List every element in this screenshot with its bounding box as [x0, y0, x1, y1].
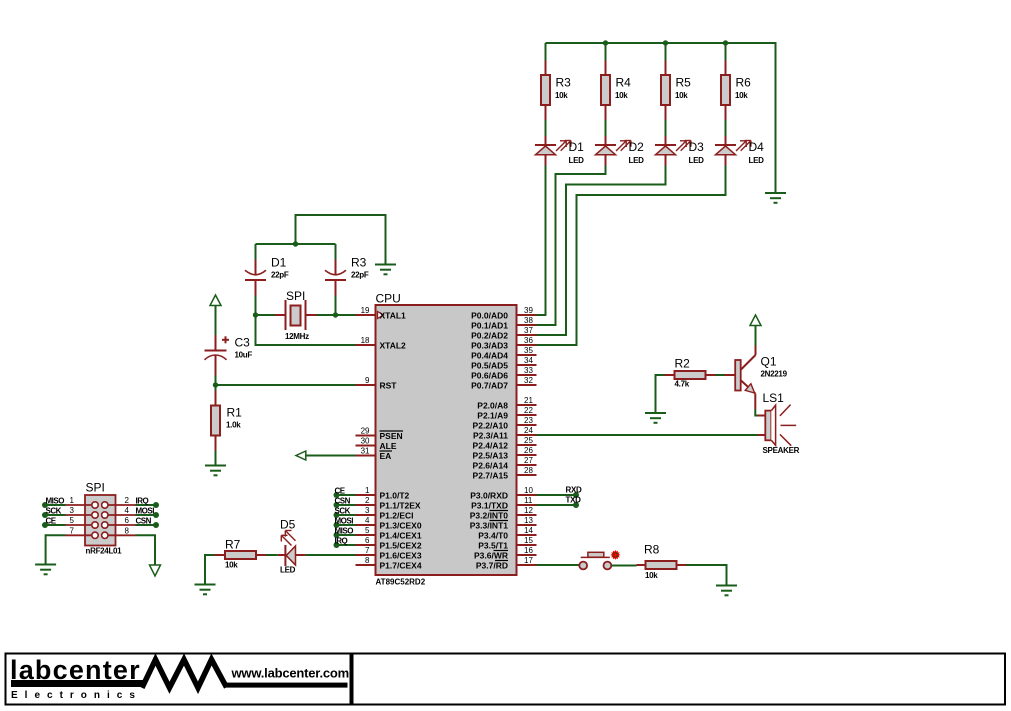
- pin 5 SPI left: [66, 516, 99, 528]
- svg-text:P2.0/A8: P2.0/A8: [477, 401, 508, 411]
- svg-text:RXD: RXD: [566, 486, 583, 495]
- wire top supply rail: [546, 43, 776, 193]
- svg-text:30: 30: [361, 437, 370, 446]
- svg-text:25: 25: [524, 436, 533, 445]
- resistor R7 10k: [215, 538, 267, 570]
- wire D2 to P0.1 pin38: [537, 166, 606, 326]
- svg-text:P0.1/AD1: P0.1/AD1: [471, 321, 508, 331]
- resistor R1 1.0k: [211, 391, 242, 451]
- svg-text:CSN: CSN: [136, 517, 152, 526]
- wire net IRQ to pin 6: [334, 537, 356, 549]
- pin 36 P0.3/AD3 stub: [471, 336, 536, 351]
- capacitor D1 22pF: [245, 244, 289, 315]
- svg-text:R5: R5: [676, 76, 692, 90]
- svg-text:21: 21: [524, 396, 533, 405]
- svg-text:3: 3: [365, 506, 370, 515]
- border title box: [353, 654, 1006, 705]
- svg-text:10k: 10k: [615, 91, 628, 100]
- svg-text:P0.2/AD2: P0.2/AD2: [471, 331, 508, 341]
- svg-text:19: 19: [361, 306, 370, 315]
- svg-text:13: 13: [524, 516, 533, 525]
- svg-text:P1.2/ECI: P1.2/ECI: [380, 511, 414, 521]
- svg-text:8: 8: [125, 526, 130, 535]
- pin 34 P0.5/AD5 stub: [471, 356, 536, 371]
- svg-text:ALE: ALE: [380, 441, 397, 451]
- svg-text:10k: 10k: [675, 91, 688, 100]
- capacitor R3 22pF: [325, 244, 369, 315]
- resistor R8 10k: [637, 543, 687, 581]
- svg-text:27: 27: [524, 456, 533, 465]
- pin 32 P0.7/AD7 stub: [471, 376, 536, 391]
- svg-text:P0.7/AD7: P0.7/AD7: [471, 381, 508, 391]
- svg-text:P0.5/AD5: P0.5/AD5: [471, 361, 508, 371]
- svg-text:12MHz: 12MHz: [285, 332, 309, 341]
- pin 19 XTAL1 stub: [356, 306, 407, 321]
- wire net CSN SPI: [136, 517, 160, 529]
- wire EA with arrow: [296, 451, 356, 460]
- wire R6 to D4: [725, 120, 727, 136]
- wire D1 to P0.0 pin39: [537, 166, 546, 316]
- pin 6 SPI right: [102, 516, 136, 528]
- svg-text:P3.4/T0: P3.4/T0: [478, 531, 508, 541]
- svg-text:10k: 10k: [735, 91, 748, 100]
- pin marker XTAL1 clock: [378, 312, 384, 319]
- svg-text:SCK: SCK: [46, 507, 62, 516]
- ground R1: [205, 466, 226, 476]
- svg-text:SPI: SPI: [286, 289, 305, 303]
- svg-text:LED: LED: [280, 566, 296, 575]
- svg-text:MISO: MISO: [335, 527, 354, 536]
- svg-text:10: 10: [524, 486, 533, 495]
- pin 12 P3.2/INT0 stub: [470, 506, 537, 521]
- wire net CE to pin 1: [334, 487, 356, 499]
- svg-text:P0.4/AD4: P0.4/AD4: [471, 351, 508, 361]
- pin 7 SPI left: [66, 526, 99, 538]
- ground top-right rail: [765, 193, 786, 203]
- svg-text:SPEAKER: SPEAKER: [763, 446, 800, 455]
- svg-text:16: 16: [524, 546, 533, 555]
- pin 1 P1.0/T2 stub: [356, 486, 410, 501]
- svg-text:10k: 10k: [645, 571, 658, 580]
- wire ground to R7: [205, 555, 215, 585]
- pin 8 SPI right: [102, 526, 136, 538]
- pin 13 P3.3/INT1 stub: [470, 516, 537, 531]
- LED D4: [715, 136, 764, 166]
- pin 16 P3.6/WR stub: [474, 546, 537, 561]
- svg-text:8: 8: [365, 556, 370, 565]
- wire pin17 to button: [537, 564, 580, 566]
- svg-text:P1.6/CEX3: P1.6/CEX3: [380, 551, 422, 561]
- connector SPI nRF24L01 body: [85, 495, 116, 546]
- svg-text:31: 31: [361, 447, 370, 456]
- node XTAL1 left junction: [253, 312, 258, 317]
- svg-text:14: 14: [524, 526, 533, 535]
- wire power to C3: [215, 306, 217, 336]
- svg-text:26: 26: [524, 446, 533, 455]
- pin 18 XTAL2 stub: [356, 336, 407, 351]
- svg-text:IRQ: IRQ: [136, 497, 149, 506]
- svg-text:2: 2: [365, 496, 370, 505]
- svg-text:P3.2/INT0: P3.2/INT0: [470, 511, 509, 521]
- svg-text:D3: D3: [689, 140, 705, 154]
- wire C3 to RST node: [215, 376, 217, 391]
- svg-text:37: 37: [524, 326, 533, 335]
- wire crystal left lead: [256, 314, 276, 316]
- svg-text:P1.4/CEX1: P1.4/CEX1: [380, 531, 422, 541]
- svg-text:9: 9: [365, 376, 370, 385]
- svg-text:10k: 10k: [225, 561, 238, 570]
- wire D5 to pin7: [306, 554, 356, 556]
- pin 3 P1.2/ECI stub: [356, 506, 414, 521]
- pin 8 P1.7/CEX4 stub: [356, 556, 422, 571]
- svg-text:10k: 10k: [555, 91, 568, 100]
- svg-text:38: 38: [524, 316, 533, 325]
- svg-text:6: 6: [365, 536, 370, 545]
- capacitor C3 10uF: [205, 335, 253, 376]
- wire R7 to D5: [266, 554, 278, 556]
- ground SPI: [35, 565, 56, 575]
- wire RST to CPU pin9: [216, 384, 356, 386]
- svg-text:R2: R2: [675, 357, 691, 371]
- wire rail to R5: [665, 43, 667, 61]
- pin 37 P0.2/AD2 stub: [471, 326, 536, 341]
- pin 14 P3.4/T0 stub: [478, 526, 536, 541]
- svg-text:R4: R4: [616, 76, 632, 90]
- wire power to collector: [755, 326, 757, 346]
- svg-text:P3.3/INT1: P3.3/INT1: [470, 521, 509, 531]
- wire R5 to D3: [665, 120, 667, 136]
- svg-text:SCK: SCK: [335, 507, 351, 516]
- wire crystal to XTAL1: [317, 314, 356, 316]
- pin 10 P3.0/RXD stub: [470, 486, 536, 501]
- svg-text:CSN: CSN: [335, 497, 351, 506]
- wire rail to R6: [725, 43, 727, 61]
- resistor R6 10k: [721, 61, 751, 121]
- wire cap top link: [256, 243, 336, 245]
- svg-text:IRQ: IRQ: [335, 537, 348, 546]
- svg-text:36: 36: [524, 336, 533, 345]
- pin 21 P2.0/A8 stub: [477, 396, 536, 411]
- svg-text:11: 11: [524, 496, 533, 505]
- svg-text:P1.7/CEX4: P1.7/CEX4: [380, 561, 422, 571]
- svg-text:P1.0/T2: P1.0/T2: [380, 491, 410, 501]
- wire net MISO to pin 5: [334, 527, 356, 539]
- svg-text:22: 22: [524, 406, 533, 415]
- pin 38 P0.1/AD1 stub: [471, 316, 536, 331]
- wire net SCK SPI: [42, 507, 66, 519]
- svg-text:R3: R3: [556, 76, 572, 90]
- svg-text:4.7k: 4.7k: [675, 380, 690, 389]
- svg-text:P2.7/A15: P2.7/A15: [473, 471, 509, 481]
- wire D3 to P0.2 pin37: [537, 166, 666, 336]
- pin 2 P1.1/T2EX stub: [356, 496, 421, 511]
- wire R4 to D2: [605, 120, 607, 136]
- wire crystal top loop: [296, 215, 386, 265]
- wire net MOSI SPI: [136, 507, 160, 519]
- node rail-R6: [723, 40, 728, 45]
- svg-text:10uF: 10uF: [235, 351, 253, 360]
- svg-text:22pF: 22pF: [351, 271, 369, 280]
- wire emitter to speaker: [755, 409, 757, 416]
- terminal arrow SPI pin8: [150, 565, 161, 576]
- pin 22 P2.1/A9 stub: [477, 406, 536, 421]
- pin 39 P0.0/AD0 stub: [471, 306, 536, 321]
- node XTAL1 right junction: [333, 312, 338, 317]
- pin 6 P1.5/CEX2 stub: [356, 536, 422, 551]
- crystal SPI 12MHz: [275, 289, 317, 341]
- svg-text:D1: D1: [271, 256, 287, 270]
- resistor R5 10k: [661, 61, 691, 121]
- transistor Q1 2N2219: [725, 346, 788, 410]
- svg-text:12: 12: [524, 506, 533, 515]
- pin 27 P2.6/A14 stub: [473, 456, 537, 471]
- power +V C3: [210, 295, 221, 306]
- svg-text:7: 7: [365, 546, 370, 555]
- wire net IRQ SPI: [136, 497, 160, 509]
- border logo box: [6, 654, 351, 705]
- svg-text:P2.6/A14: P2.6/A14: [473, 461, 509, 471]
- svg-text:P3.5/T1: P3.5/T1: [478, 541, 508, 551]
- node rail-R4: [603, 40, 608, 45]
- svg-text:LED: LED: [689, 156, 705, 165]
- wire rail to R3: [545, 43, 547, 61]
- svg-text:P2.3/A11: P2.3/A11: [473, 431, 508, 441]
- svg-text:1: 1: [365, 486, 370, 495]
- svg-text:R6: R6: [736, 76, 752, 90]
- svg-text:P3.0/RXD: P3.0/RXD: [470, 491, 508, 501]
- ground R8: [716, 586, 737, 596]
- svg-text:P3.7/RD: P3.7/RD: [476, 561, 508, 571]
- wire R1 to ground: [215, 451, 217, 466]
- op-amp n/a : CPU U1 AT89C52RD2 body: [376, 305, 517, 575]
- svg-text:P2.4/A12: P2.4/A12: [473, 441, 509, 451]
- pin 15 P3.5/T1 stub: [478, 536, 536, 551]
- logo underline bar: [11, 680, 144, 687]
- svg-text:C3: C3: [235, 336, 251, 350]
- svg-text:R1: R1: [227, 406, 243, 420]
- svg-text:3: 3: [70, 506, 75, 515]
- svg-text:Q1: Q1: [761, 355, 777, 369]
- pin 28 P2.7/A15 stub: [473, 466, 537, 481]
- svg-text:D4: D4: [749, 140, 765, 154]
- svg-text:P1.3/CEX0: P1.3/CEX0: [380, 521, 422, 531]
- pin 3 SPI left: [66, 506, 99, 518]
- wire SPI pin8 to terminal: [136, 535, 156, 565]
- svg-text:P2.5/A13: P2.5/A13: [473, 451, 509, 461]
- pin 25 P2.4/A12 stub: [473, 436, 537, 451]
- LED D3: [655, 136, 704, 166]
- svg-text:33: 33: [524, 366, 533, 375]
- resistor R2 4.7k: [665, 357, 716, 389]
- svg-text:XTAL1: XTAL1: [380, 311, 407, 321]
- svg-text:LED: LED: [749, 156, 765, 165]
- svg-text:R8: R8: [644, 543, 660, 557]
- svg-text:P0.6/AD6: P0.6/AD6: [471, 371, 508, 381]
- pin 11 P3.1/TXD stub: [471, 496, 536, 511]
- svg-text:www.labcenter.com: www.labcenter.com: [231, 666, 350, 681]
- pin 26 P2.5/A13 stub: [473, 446, 537, 461]
- node rail-R5: [663, 40, 668, 45]
- pin 31 EA stub: [356, 447, 393, 462]
- wire net CE SPI: [42, 517, 66, 529]
- LED D1: [535, 136, 584, 166]
- svg-text:CE: CE: [46, 517, 57, 526]
- svg-text:29: 29: [361, 427, 370, 436]
- speaker LS1: [758, 391, 800, 455]
- svg-text:24: 24: [524, 426, 533, 435]
- pin 35 P0.4/AD4 stub: [471, 346, 536, 361]
- LED D2: [595, 136, 644, 166]
- wire SPI pin7 to ground: [46, 535, 66, 564]
- svg-text:D2: D2: [629, 140, 645, 154]
- svg-text:1: 1: [70, 496, 75, 505]
- svg-text:R7: R7: [225, 538, 241, 552]
- pin 5 P1.4/CEX1 stub: [356, 526, 422, 541]
- button interactive marker: [610, 550, 620, 560]
- resistor R3 10k: [541, 61, 571, 121]
- wire R3 to D1: [545, 120, 547, 136]
- svg-text:4: 4: [125, 506, 130, 515]
- svg-text:MOSI: MOSI: [136, 507, 155, 516]
- svg-text:CPU: CPU: [376, 292, 401, 306]
- pin 33 P0.6/AD6 stub: [471, 366, 536, 381]
- wire rail to R4: [605, 43, 607, 61]
- resistor R4 10k: [601, 61, 631, 121]
- svg-text:P2.2/A10: P2.2/A10: [473, 421, 509, 431]
- svg-text:nRF24L01: nRF24L01: [86, 547, 123, 556]
- svg-text:28: 28: [524, 466, 533, 475]
- svg-text:32: 32: [524, 376, 533, 385]
- push button: [579, 552, 611, 569]
- svg-text:22pF: 22pF: [271, 271, 289, 280]
- node RST: [213, 382, 218, 387]
- pin 7 P1.6/CEX3 stub: [356, 546, 422, 561]
- svg-text:39: 39: [524, 306, 533, 315]
- LED D5: [278, 518, 306, 575]
- svg-text:15: 15: [524, 536, 533, 545]
- pin 17 P3.7/RD stub: [476, 556, 537, 571]
- svg-text:17: 17: [524, 556, 533, 565]
- wire D4 to P0.3 pin36: [537, 166, 726, 346]
- pin 30 ALE stub: [356, 437, 397, 452]
- svg-text:2N2219: 2N2219: [761, 370, 788, 379]
- svg-text:XTAL2: XTAL2: [380, 341, 407, 351]
- svg-text:TXD: TXD: [566, 496, 582, 505]
- svg-text:Electronics: Electronics: [11, 690, 142, 701]
- wire TXD pin11: [537, 496, 582, 509]
- svg-text:P3.1/TXD: P3.1/TXD: [471, 501, 508, 511]
- svg-text:5: 5: [70, 516, 75, 525]
- svg-text:P2.1/A9: P2.1/A9: [477, 411, 508, 421]
- svg-text:LS1: LS1: [763, 391, 785, 405]
- ground R2: [645, 413, 666, 423]
- svg-text:CE: CE: [335, 487, 346, 496]
- svg-text:LED: LED: [629, 156, 645, 165]
- svg-text:D5: D5: [280, 518, 296, 532]
- svg-text:6: 6: [125, 516, 130, 525]
- svg-text:18: 18: [361, 336, 370, 345]
- svg-text:P1.5/CEX2: P1.5/CEX2: [380, 541, 422, 551]
- pin 29 PSEN stub: [356, 427, 404, 442]
- wire net MOSI to pin 4: [334, 517, 356, 529]
- svg-text:P3.6/WR: P3.6/WR: [474, 551, 508, 561]
- svg-text:P0.0/AD0: P0.0/AD0: [471, 311, 508, 321]
- pin 24 P2.3/A11 stub: [473, 426, 536, 441]
- svg-text:35: 35: [524, 346, 533, 355]
- wire RXD pin10: [537, 486, 583, 499]
- svg-text:D1: D1: [569, 140, 585, 154]
- svg-text:LED: LED: [569, 156, 585, 165]
- svg-text:MISO: MISO: [46, 497, 65, 506]
- pin 4 SPI right: [102, 506, 136, 518]
- svg-text:P1.1/T2EX: P1.1/T2EX: [380, 501, 421, 511]
- svg-text:23: 23: [524, 416, 533, 425]
- ground R7: [195, 585, 216, 595]
- svg-text:R3: R3: [351, 256, 367, 270]
- wire button to R8: [612, 565, 637, 567]
- svg-text:MOSI: MOSI: [335, 517, 354, 526]
- pin 9 RST stub: [356, 376, 398, 391]
- wire R2 base link: [716, 374, 725, 376]
- svg-text:P0.3/AD3: P0.3/AD3: [471, 341, 508, 351]
- power +V Q1 collector: [750, 315, 761, 326]
- svg-text:2: 2: [125, 496, 130, 505]
- svg-text:4: 4: [365, 516, 370, 525]
- wire to XTAL2: [256, 315, 356, 345]
- svg-text:34: 34: [524, 356, 533, 365]
- svg-text:AT89C52RD2: AT89C52RD2: [376, 578, 426, 587]
- wire net SCK to pin 3: [334, 507, 356, 519]
- wire R2 to ground: [656, 375, 665, 413]
- pin 23 P2.2/A10 stub: [473, 416, 537, 431]
- pin 4 P1.3/CEX0 stub: [356, 516, 422, 531]
- svg-text:PSEN: PSEN: [380, 431, 403, 441]
- pin 2 SPI right: [102, 496, 136, 508]
- svg-text:1.0k: 1.0k: [226, 421, 241, 430]
- wire P2.3 pin24 to speaker: [537, 434, 758, 436]
- ground crystal loop: [375, 265, 396, 275]
- wire net MISO SPI: [42, 497, 66, 509]
- node cap top center: [293, 241, 298, 246]
- wire R8 to ground: [687, 565, 727, 586]
- logo zigzag: [142, 660, 227, 688]
- svg-text:SPI: SPI: [86, 481, 105, 495]
- svg-text:EA: EA: [380, 451, 392, 461]
- pin 1 SPI left: [66, 496, 99, 508]
- svg-text:5: 5: [365, 526, 370, 535]
- wire net CSN to pin 2: [334, 497, 356, 509]
- svg-text:RST: RST: [380, 381, 398, 391]
- svg-text:7: 7: [70, 526, 75, 535]
